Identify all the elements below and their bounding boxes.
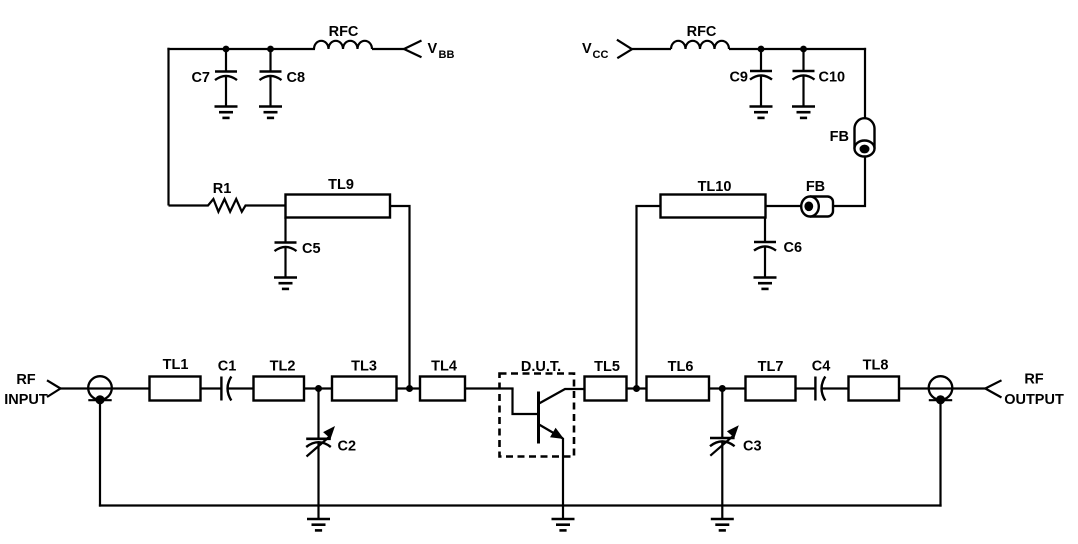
transistor Q1 collector [539,389,585,404]
wire TL7 to C4 [796,387,816,389]
node junction C3 [719,385,726,392]
ground C5 [274,278,297,289]
svg-text:TL3: TL3 [351,359,377,375]
capacitor C10 [793,49,815,107]
wire TL2 to TL3 [304,387,332,389]
ground C6 [754,278,777,289]
wire vertical TL10 to main line [635,206,637,389]
svg-text:BB: BB [439,49,455,61]
capacitor C9 [750,49,772,107]
svg-text:C5: C5 [302,241,321,257]
ground DUT emitter [552,519,575,530]
svg-text:TL9: TL9 [328,177,354,193]
transmission line TL9 [286,195,391,218]
wire VBB left vertical [167,48,169,206]
DUT dashed box [500,374,575,457]
terminal arrow RF input [47,380,61,397]
svg-text:C9: C9 [729,70,748,86]
wire VCC rail down to FB1 [864,48,866,119]
ground C3 [711,519,734,530]
wire output stem down [939,400,941,506]
wire TL9 right to main line [390,206,410,389]
svg-text:RF: RF [16,372,35,388]
wire C4 to TL8 [821,387,849,389]
wire FB2 to TL10 [766,205,802,207]
node junction C10 top [800,46,807,53]
connector input [88,376,112,404]
svg-text:FB: FB [806,179,825,195]
wire VCC arrow to RFC [632,48,671,50]
transmission line TL4 [420,377,465,401]
wire TL10 to down-node [635,205,660,207]
svg-text:V: V [582,41,592,57]
transistor Q1 base bar [537,392,540,444]
ground C2 [307,519,330,530]
transmission line TL5 [585,377,627,401]
transistor Q1 base wire [513,389,539,415]
svg-text:C3: C3 [743,439,762,455]
label RF INPUT [4,372,48,408]
svg-text:RFC: RFC [329,24,359,40]
node junction C7 top [223,46,230,53]
svg-text:C4: C4 [812,359,831,375]
svg-text:OUTPUT: OUTPUT [1004,392,1064,408]
wire TL8 to output arrow [899,387,985,389]
svg-text:TL7: TL7 [758,359,784,375]
transmission line TL10 [661,195,766,218]
wire input stem down [99,400,101,506]
wire VCC top rail [729,48,866,50]
transmission line TL8 [849,377,900,401]
ground C7 [215,107,238,118]
node junction TL10 drop [633,385,640,392]
svg-text:C10: C10 [819,70,846,86]
capacitor C1 [221,377,231,401]
inductor RFC left [314,41,372,49]
svg-text:TL5: TL5 [594,359,620,375]
capacitor C8 [260,49,282,107]
node junction TL9 drop [406,385,413,392]
svg-text:TL10: TL10 [698,179,732,195]
svg-text:TL8: TL8 [863,358,889,374]
wire VBB top rail [167,48,315,50]
transmission line TL2 [254,377,305,401]
wire FB1 to corner to FB2 [833,157,865,207]
ferrite bead FB2 horizontal [801,197,833,217]
terminal arrow RF output [985,380,1001,397]
ground C10 [792,107,815,118]
resistor R1 [169,199,286,212]
node junction C8 top [267,46,274,53]
svg-text:C7: C7 [191,70,210,86]
transmission line TL3 [332,377,397,401]
node junction C9 top [758,46,765,53]
svg-text:TL1: TL1 [163,357,189,373]
label VBB [428,41,455,61]
label RF OUTPUT [1004,372,1064,409]
ground C9 [750,107,773,118]
svg-text:INPUT: INPUT [4,392,48,408]
svg-text:C2: C2 [338,439,357,455]
svg-text:R1: R1 [213,181,232,197]
capacitor C5 [275,218,297,278]
svg-text:RF: RF [1024,372,1043,388]
wire TL3 to TL4 [397,387,421,389]
wire bottom rail [99,504,942,506]
wire input to TL1 [61,387,150,389]
transistor Q1 emitter [539,425,564,440]
svg-text:TL6: TL6 [668,359,694,375]
capacitor C4 [815,377,825,401]
wire C1 to TL2 [227,387,254,389]
svg-text:FB: FB [830,129,849,145]
svg-text:V: V [428,41,438,57]
svg-text:C6: C6 [784,240,803,256]
wire TL4 to DUT [465,387,514,389]
ground C8 [259,107,282,118]
svg-text:TL2: TL2 [270,359,296,375]
inductor RFC right [671,41,729,49]
transmission line TL6 [647,377,710,401]
svg-text:C1: C1 [218,359,237,375]
wire emitter down to ground [562,438,564,519]
wire TL6 to TL7 [709,387,746,389]
svg-text:C8: C8 [287,70,306,86]
capacitor C6 [754,218,776,278]
ferrite bead FB1 vertical [855,118,875,156]
wire TL1 to C1 [201,387,222,389]
node junction C2 [315,385,322,392]
label VCC [582,41,608,61]
svg-text:D.U.T.: D.U.T. [521,359,561,375]
capacitor C2 variable [306,389,335,520]
capacitor C7 [215,49,237,107]
wire TL5 to TL6 [627,387,647,389]
terminal arrow VBB [404,41,422,58]
capacitor C3 variable [710,389,739,520]
svg-text:RFC: RFC [687,24,717,40]
transmission line TL1 [150,377,201,401]
wire RFC to VBB arrow [372,48,404,50]
connector output [929,376,953,404]
terminal arrow VCC [617,40,632,59]
svg-text:TL4: TL4 [431,359,457,375]
svg-text:CC: CC [593,49,609,61]
transmission line TL7 [746,377,796,401]
